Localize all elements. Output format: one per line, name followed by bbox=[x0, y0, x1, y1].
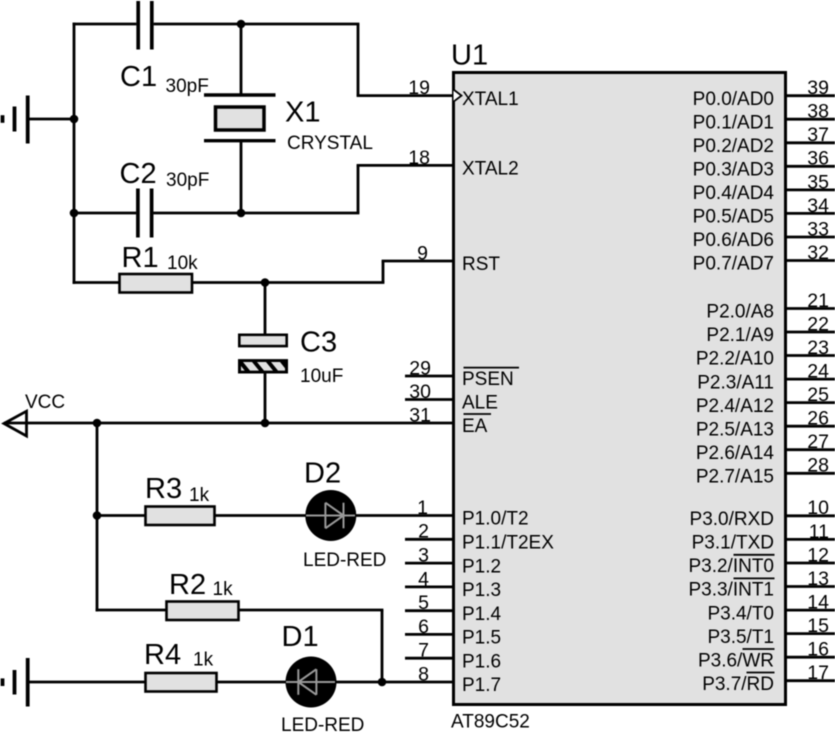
svg-text:XTAL2: XTAL2 bbox=[462, 159, 519, 180]
svg-text:P2.7/A15: P2.7/A15 bbox=[696, 467, 774, 488]
capacitor C1 plates bbox=[138, 1, 152, 50]
svg-text:P3.7/RD: P3.7/RD bbox=[702, 674, 774, 695]
svg-text:6: 6 bbox=[418, 616, 429, 638]
node junction at (74,213) bbox=[70, 209, 79, 218]
svg-text:39: 39 bbox=[807, 77, 829, 99]
svg-text:P0.3/AD3: P0.3/AD3 bbox=[693, 160, 774, 181]
crystal X1 bottom plate bbox=[204, 139, 276, 142]
wire R1 right to corner bbox=[192, 281, 384, 284]
chip pin labels right bbox=[688, 89, 774, 695]
node junction at (74,119) bbox=[70, 115, 79, 124]
wire corner up to XTAL2 pin bbox=[357, 165, 360, 213]
crystal X1 body bbox=[216, 107, 265, 130]
svg-text:17: 17 bbox=[807, 662, 829, 684]
wire corner down to pin8 wire bbox=[381, 610, 384, 682]
wire C1 top wire left segment bbox=[73, 23, 137, 26]
svg-text:30: 30 bbox=[409, 381, 431, 403]
svg-text:21: 21 bbox=[807, 290, 829, 312]
svg-text:C3: C3 bbox=[300, 327, 337, 359]
wire corner down to XTAL1 pin bbox=[357, 24, 360, 96]
pin stub 6 bbox=[405, 633, 453, 636]
node junction at (265,423) bbox=[261, 419, 270, 428]
wire R2 left corner bbox=[96, 609, 166, 612]
wire C3 bottom to VCC/EA wire bbox=[264, 373, 267, 423]
pin stub 36 bbox=[786, 165, 835, 168]
svg-text:2: 2 bbox=[418, 521, 429, 543]
pin stub 11 bbox=[786, 538, 835, 541]
node junction at (265,282.5) bbox=[261, 278, 270, 287]
led D2 bbox=[305, 490, 356, 541]
svg-text:12: 12 bbox=[807, 544, 829, 566]
pin stub 22 bbox=[786, 331, 835, 334]
svg-text:U1: U1 bbox=[451, 39, 488, 71]
pin stub 35 bbox=[786, 188, 835, 191]
wire R2 right to corner bbox=[239, 609, 384, 612]
svg-text:1: 1 bbox=[417, 497, 428, 519]
wire R3 left bbox=[97, 514, 145, 517]
svg-text:P1.3: P1.3 bbox=[462, 580, 501, 601]
wire corner up to RST pin bbox=[382, 261, 385, 283]
svg-text:P0.1/AD1: P0.1/AD1 bbox=[693, 112, 774, 133]
svg-text:23: 23 bbox=[807, 337, 829, 359]
svg-text:R3: R3 bbox=[145, 473, 182, 505]
svg-text:16: 16 bbox=[807, 639, 829, 661]
pin stub 33 bbox=[786, 236, 835, 239]
svg-text:P0.7/AD7: P0.7/AD7 bbox=[693, 254, 774, 275]
svg-text:P1.7: P1.7 bbox=[462, 675, 501, 696]
clock arrow XTAL1 bbox=[454, 90, 462, 102]
pin stubs left no-connect bbox=[405, 376, 453, 658]
pin stub 12 bbox=[786, 562, 835, 565]
pin stub 32 bbox=[786, 259, 835, 262]
svg-text:RST: RST bbox=[462, 254, 500, 275]
svg-text:P0.2/AD2: P0.2/AD2 bbox=[693, 136, 774, 157]
node junction at (241,213) bbox=[237, 209, 246, 218]
svg-text:EA: EA bbox=[462, 416, 488, 437]
svg-text:13: 13 bbox=[807, 568, 829, 590]
pin numbers left bbox=[408, 77, 431, 685]
svg-text:CRYSTAL: CRYSTAL bbox=[287, 133, 373, 154]
svg-text:P0.0/AD0: P0.0/AD0 bbox=[693, 89, 774, 110]
svg-text:P1.6: P1.6 bbox=[462, 651, 501, 672]
wire gnd2 to R4 bbox=[30, 681, 146, 684]
svg-text:10: 10 bbox=[807, 497, 829, 519]
svg-text:P3.3/INT1: P3.3/INT1 bbox=[688, 580, 774, 601]
svg-text:LED-RED: LED-RED bbox=[281, 715, 364, 734]
svg-text:19: 19 bbox=[408, 77, 430, 99]
svg-text:P3.6/WR: P3.6/WR bbox=[698, 650, 774, 671]
svg-text:R1: R1 bbox=[122, 242, 159, 274]
svg-text:P1.2: P1.2 bbox=[462, 556, 501, 577]
pin stub 7 bbox=[405, 657, 453, 660]
svg-text:D1: D1 bbox=[282, 621, 319, 653]
svg-text:22: 22 bbox=[807, 313, 829, 335]
pin stub 25 bbox=[786, 401, 835, 404]
svg-text:D2: D2 bbox=[304, 458, 341, 490]
overline RD bbox=[747, 672, 775, 674]
svg-text:P0.6/AD6: P0.6/AD6 bbox=[693, 230, 774, 251]
svg-text:VCC: VCC bbox=[25, 392, 65, 413]
svg-text:1k: 1k bbox=[189, 485, 210, 506]
wire R1 left bbox=[73, 281, 119, 284]
svg-text:AT89C52: AT89C52 bbox=[451, 712, 530, 733]
pin stub 14 bbox=[786, 609, 835, 612]
pin stub 34 bbox=[786, 212, 835, 215]
svg-text:35: 35 bbox=[807, 171, 829, 193]
svg-text:P2.3/A11: P2.3/A11 bbox=[697, 372, 774, 393]
ground GND2 (bottom-left, pointing left) bbox=[3, 658, 28, 707]
svg-text:P2.6/A14: P2.6/A14 bbox=[696, 443, 775, 464]
pin stub 29 bbox=[405, 375, 453, 378]
svg-text:10k: 10k bbox=[167, 253, 198, 274]
resistor R3 body bbox=[146, 507, 215, 526]
svg-text:P3.1/TXD: P3.1/TXD bbox=[692, 533, 774, 554]
capacitor C2 plates bbox=[138, 189, 152, 238]
crystal X1 top plate bbox=[204, 93, 276, 96]
svg-text:P1.1/T2EX: P1.1/T2EX bbox=[462, 533, 554, 554]
wire XTAL2 pin 18 bbox=[357, 164, 453, 167]
svg-text:P1.5: P1.5 bbox=[462, 628, 501, 649]
node junction at (97,423) bbox=[93, 419, 102, 428]
svg-text:P3.5/T1: P3.5/T1 bbox=[707, 627, 774, 648]
pin stub 13 bbox=[786, 585, 835, 588]
svg-text:30pF: 30pF bbox=[166, 170, 209, 191]
svg-text:X1: X1 bbox=[285, 97, 320, 129]
svg-text:32: 32 bbox=[807, 242, 829, 264]
pin stub 24 bbox=[786, 378, 835, 381]
wire RST pin 9 bbox=[382, 260, 453, 263]
svg-text:P1.0/T2: P1.0/T2 bbox=[462, 509, 529, 530]
pin stub 5 bbox=[405, 609, 453, 612]
pin stub 10 bbox=[786, 514, 835, 517]
svg-text:P2.0/A8: P2.0/A8 bbox=[706, 302, 774, 323]
pin stub 4 bbox=[405, 586, 453, 589]
pin stub 38 bbox=[786, 118, 835, 121]
overline WR bbox=[743, 648, 775, 650]
node junction at (382,682) bbox=[378, 678, 387, 687]
pin stub 30 bbox=[405, 398, 453, 401]
wire VCC to EA pin 31 bbox=[4, 422, 453, 425]
svg-text:38: 38 bbox=[807, 101, 829, 123]
svg-text:ALE: ALE bbox=[462, 393, 498, 414]
svg-text:15: 15 bbox=[807, 615, 829, 637]
svg-text:R2: R2 bbox=[169, 569, 206, 601]
svg-text:1k: 1k bbox=[213, 579, 234, 600]
svg-text:29: 29 bbox=[409, 357, 431, 379]
svg-text:37: 37 bbox=[807, 124, 829, 146]
node junction at (97,515.5) bbox=[93, 511, 102, 520]
svg-text:28: 28 bbox=[807, 455, 829, 477]
svg-text:7: 7 bbox=[418, 640, 429, 662]
chip pin labels left bbox=[462, 89, 554, 696]
svg-text:30pF: 30pF bbox=[166, 76, 209, 97]
pin stub 21 bbox=[786, 307, 835, 310]
svg-text:5: 5 bbox=[418, 592, 429, 614]
resistor R4 body bbox=[146, 673, 217, 692]
svg-text:C1: C1 bbox=[120, 61, 157, 93]
pin stub 2 bbox=[405, 538, 453, 541]
svg-text:14: 14 bbox=[807, 592, 829, 614]
wire junction down to crystal top plate bbox=[240, 24, 243, 95]
svg-text:36: 36 bbox=[807, 148, 829, 170]
wire XTAL1 pin 19 bbox=[357, 94, 453, 97]
pin stub 3 bbox=[405, 562, 453, 565]
svg-text:33: 33 bbox=[807, 218, 829, 240]
svg-text:P3.4/T0: P3.4/T0 bbox=[707, 603, 774, 624]
svg-text:34: 34 bbox=[807, 195, 829, 217]
svg-text:P2.4/A12: P2.4/A12 bbox=[696, 396, 774, 417]
pin stub 23 bbox=[786, 354, 835, 357]
wire R4 right to D1 bbox=[217, 681, 288, 684]
svg-text:C2: C2 bbox=[120, 158, 157, 190]
svg-text:PSEN: PSEN bbox=[462, 369, 514, 390]
svg-text:9: 9 bbox=[417, 242, 428, 264]
pin stub 17 bbox=[786, 679, 835, 682]
pin stubs right bbox=[786, 96, 835, 681]
svg-text:4: 4 bbox=[418, 568, 429, 590]
wire R3 right to D2 bbox=[215, 514, 308, 517]
wire gnd1 to vertical rail bbox=[30, 118, 75, 121]
svg-text:31: 31 bbox=[409, 404, 431, 426]
svg-text:P2.5/A13: P2.5/A13 bbox=[696, 419, 774, 440]
wire D2 to pin 1 bbox=[355, 514, 453, 517]
led D1 bbox=[286, 657, 337, 708]
wire junction down to C3 top plate bbox=[264, 283, 267, 335]
wire left vertical rail x=74 from C1 wire to C2 wire bbox=[73, 23, 76, 213]
pin stub 26 bbox=[786, 425, 835, 428]
svg-text:3: 3 bbox=[418, 545, 429, 567]
svg-text:P3.0/RXD: P3.0/RXD bbox=[690, 509, 774, 530]
svg-text:P0.4/AD4: P0.4/AD4 bbox=[693, 183, 775, 204]
svg-text:27: 27 bbox=[807, 431, 829, 453]
wire C2 left segment bbox=[73, 212, 136, 215]
wire rail x=97 down to R2 corner bbox=[96, 423, 99, 611]
svg-text:18: 18 bbox=[408, 147, 430, 169]
pin stub 16 bbox=[786, 656, 835, 659]
wire crystal bottom to C2 wire bbox=[240, 141, 243, 213]
pin stub 15 bbox=[786, 632, 835, 635]
svg-text:25: 25 bbox=[807, 384, 829, 406]
node junction at (241,24) bbox=[237, 20, 246, 29]
svg-text:P1.4: P1.4 bbox=[462, 604, 502, 625]
svg-text:1k: 1k bbox=[193, 650, 214, 671]
pin stub 28 bbox=[786, 472, 835, 475]
svg-text:26: 26 bbox=[807, 408, 829, 430]
svg-text:10uF: 10uF bbox=[300, 366, 343, 387]
svg-text:11: 11 bbox=[809, 521, 829, 543]
pin stub 37 bbox=[786, 141, 835, 144]
pin stub 39 bbox=[786, 94, 835, 97]
svg-text:R4: R4 bbox=[144, 639, 181, 671]
svg-text:LED-RED: LED-RED bbox=[303, 550, 386, 571]
wire C1 right segment to corner bbox=[154, 23, 360, 26]
pin stub 27 bbox=[786, 448, 835, 451]
overline PSEN bbox=[464, 367, 520, 369]
resistor R1 body bbox=[120, 274, 193, 293]
ground GND1 (top-left, pointing left) bbox=[3, 96, 28, 144]
overline EA bbox=[464, 413, 492, 415]
op chip U1 body bbox=[454, 73, 786, 705]
svg-text:P2.2/A10: P2.2/A10 bbox=[696, 349, 774, 370]
overline INT0 bbox=[734, 554, 775, 556]
svg-text:P3.2/INT0: P3.2/INT0 bbox=[688, 556, 774, 577]
svg-text:P0.5/AD5: P0.5/AD5 bbox=[693, 207, 774, 228]
wire C2 right segment to corner bbox=[153, 212, 359, 215]
svg-text:P2.1/A9: P2.1/A9 bbox=[706, 325, 774, 346]
wire D1 to pin 8 bbox=[335, 681, 453, 684]
wire rail x=74 down to R1 bbox=[73, 213, 76, 284]
svg-text:8: 8 bbox=[418, 663, 429, 685]
svg-text:XTAL1: XTAL1 bbox=[462, 89, 519, 110]
overline INT1 bbox=[734, 577, 775, 579]
pin numbers right bbox=[807, 77, 829, 684]
svg-text:24: 24 bbox=[807, 361, 829, 383]
capacitor C3 bottom plate (hatched) bbox=[238, 359, 288, 373]
capacitor C3 top plate bbox=[239, 335, 286, 346]
resistor R2 body bbox=[167, 602, 239, 621]
